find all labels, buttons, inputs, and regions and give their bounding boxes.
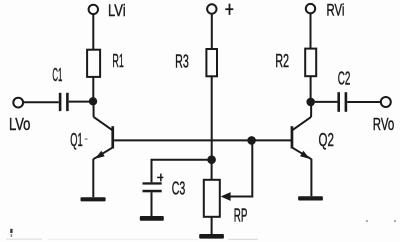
node C (wiper to base rail junction) [247, 136, 256, 145]
resistor R1 [87, 50, 100, 77]
terminal LVo [13, 98, 23, 108]
svg-text:LVi: LVi [108, 2, 126, 20]
ground under Q1 [81, 197, 106, 201]
capacitor C3 (electrolytic) [143, 174, 164, 193]
svg-text:RVi: RVi [327, 1, 345, 20]
wire node B to RP [211, 162, 213, 180]
svg-text:LVo: LVo [9, 114, 30, 134]
wire R3 to node B [211, 76, 213, 157]
potentiometer RP [204, 180, 220, 217]
wire C3 to ground [151, 192, 153, 216]
ground under RP [199, 234, 224, 239]
scan noise specks [6, 138, 396, 240]
svg-text:R2: R2 [275, 50, 289, 71]
node D (junction dot) [306, 98, 315, 107]
node A (junction dot) [89, 97, 97, 105]
svg-text:Q2: Q2 [319, 129, 334, 150]
wire node B to C3 [152, 160, 209, 183]
wire R2 to node D [310, 76, 312, 102]
wire LVo to C1 [23, 101, 59, 103]
wiper arrow of RP [221, 143, 253, 201]
terminal LVi [89, 5, 98, 14]
wire node D to C2 [315, 101, 337, 103]
wire LVi to R1 [92, 14, 94, 50]
wire C2 to RVo [347, 101, 381, 103]
ground under C3 [140, 216, 164, 221]
terminal RVo [381, 97, 391, 107]
capacitor C2 [337, 92, 347, 112]
terminal + (supply) [207, 4, 216, 13]
node B (junction dot) [207, 155, 216, 164]
terminal RVi [306, 4, 315, 13]
transistor Q2 [291, 102, 312, 196]
resistor R2 [305, 49, 316, 77]
svg-text:C3: C3 [172, 177, 186, 198]
capacitor C1 [59, 93, 69, 111]
svg-text:RVo: RVo [373, 114, 394, 134]
svg-text:C1: C1 [52, 64, 62, 85]
svg-text:Q1: Q1 [70, 129, 82, 150]
wire + to R3 [211, 14, 213, 49]
ground under Q2 [298, 196, 323, 200]
wire Q1 base rail to Q2 base [114, 139, 291, 141]
wire R1 to node A [92, 77, 94, 101]
resistor R3 [206, 49, 217, 76]
wire RVi to R2 [310, 13, 312, 48]
svg-text:RP: RP [234, 204, 248, 225]
wire RP to ground [211, 217, 213, 234]
wire C1 to node A [69, 101, 91, 103]
label + (supply plus sign) [225, 4, 233, 15]
svg-text:C2: C2 [338, 67, 351, 88]
transistor Q1 [93, 101, 114, 197]
svg-text:R3: R3 [175, 50, 189, 71]
svg-text:R1: R1 [112, 50, 124, 71]
